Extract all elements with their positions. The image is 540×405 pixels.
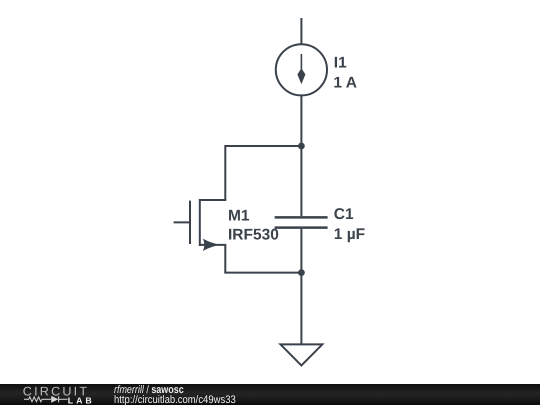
wire bottom horizontal source net (224, 272, 301, 274)
junction dot drain net (298, 143, 305, 150)
svg-text:1 A: 1 A (333, 74, 357, 91)
junction dot source net (298, 269, 305, 276)
footer logo CIRCUIT LAB (0, 384, 100, 405)
capacitor C1 top plate (275, 216, 328, 219)
footer credit line (113, 0, 115, 1)
transistor M1 gate lead (174, 221, 190, 223)
wire right vertical from source (224, 245, 226, 273)
wire I1 bottom to capacitor top (300, 95, 302, 216)
transistor M1 channel bar (199, 199, 201, 246)
wire top horizontal drain net (225, 145, 301, 147)
wire source lead M1 (200, 244, 227, 246)
transistor M1 gate bar (189, 201, 191, 244)
svg-text:LAB: LAB (68, 396, 95, 405)
transistor M1 source arrowhead (203, 239, 220, 252)
wire drain lead M1 (200, 199, 227, 201)
current source I1 circle (276, 44, 327, 95)
svg-text:IRF530: IRF530 (228, 227, 279, 244)
svg-text:C1: C1 (334, 206, 354, 223)
svg-text:I1: I1 (334, 55, 347, 72)
logo diode triangle (51, 396, 58, 403)
svg-text:M1: M1 (228, 207, 250, 224)
svg-text:1 µF: 1 µF (334, 226, 365, 243)
wire capacitor bottom to ground (300, 229, 302, 345)
wire left vertical to drain (224, 145, 226, 200)
current source I1 arrowhead (297, 68, 305, 84)
footer bar (0, 384, 540, 405)
capacitor C1 bottom plate (275, 226, 328, 229)
wire top lead of I1 (300, 18, 302, 44)
ground symbol triangle (281, 344, 323, 365)
current source I1 arrow shaft (300, 54, 302, 76)
logo resistor-diode wire (24, 396, 68, 402)
